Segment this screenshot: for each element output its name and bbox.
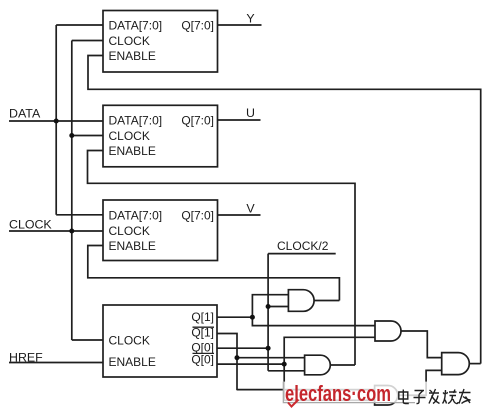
svg-text:CLOCK: CLOCK	[109, 129, 150, 143]
svg-text:V: V	[246, 202, 255, 216]
wire Q~[0] to G2 lower input	[284, 337, 375, 364]
svg-text:ENABLE: ENABLE	[109, 239, 156, 253]
wire CLOCK from terminal	[9, 230, 103, 232]
wire Q~[0] output	[217, 363, 284, 365]
svg-text:U: U	[246, 106, 255, 120]
and-gate G5	[375, 386, 398, 406]
watermark chinese 发	[429, 389, 440, 404]
svg-text:CLOCK: CLOCK	[109, 224, 150, 238]
svg-text:Q[7:0]: Q[7:0]	[181, 209, 214, 223]
wire CLOCK/2 stub	[268, 253, 336, 255]
wire HREF to U4 ENABLE	[9, 362, 103, 364]
wire U3 ENABLE feedback	[88, 246, 340, 301]
wire DATA vertical bus	[55, 25, 57, 215]
register U1 (Y) box	[103, 11, 218, 73]
svg-text:ENABLE: ENABLE	[109, 49, 156, 63]
junction A Q[1]	[250, 315, 255, 320]
watermark box border	[283, 382, 415, 403]
svg-text:CLOCK/2: CLOCK/2	[277, 239, 329, 253]
register U2 (U) box	[103, 105, 218, 167]
wire V output	[218, 214, 261, 216]
wire Q[0] to G1 lower input	[268, 306, 288, 308]
wire Q[0] vertical	[267, 254, 269, 371]
and-gate G3	[305, 355, 331, 375]
wire Y output	[218, 24, 262, 26]
svg-text:CLOCK: CLOCK	[109, 34, 150, 48]
wire U2 ENABLE feedback	[88, 151, 356, 366]
wire Q[1] to G1 upper input	[252, 295, 288, 318]
watermark chinese 子	[414, 391, 426, 404]
wire G4 output to U1 enable riser	[469, 363, 480, 365]
wire Q[0] output	[217, 347, 268, 349]
junction CLOCK node at U3	[69, 229, 74, 234]
wire CLOCK vertical bus	[71, 41, 73, 341]
wire Q[1] output	[217, 316, 252, 318]
wire Q[0] to G3 lower input	[268, 370, 305, 372]
svg-text:CLOCK: CLOCK	[109, 333, 150, 347]
wire U3 DATA input	[56, 214, 103, 216]
svg-text:HREF: HREF	[9, 351, 43, 365]
wire G3 output to U2 enable riser	[330, 364, 355, 366]
wire U2 CLOCK input	[72, 135, 103, 137]
wire Q~[1] output	[217, 334, 237, 391]
junction CLOCK node at U2	[69, 133, 74, 138]
watermark wash box	[283, 382, 458, 403]
svg-text:Y: Y	[246, 11, 254, 25]
and-gate G2	[375, 321, 401, 341]
svg-text:DATA[7:0]: DATA[7:0]	[109, 114, 163, 128]
wire DATA from terminal	[9, 120, 103, 122]
svg-text:DATA[7:0]: DATA[7:0]	[109, 19, 163, 33]
register U3 (V) box	[103, 200, 218, 261]
svg-text:elecfans·com: elecfans·com	[285, 381, 391, 406]
wire Q~[0] to G5 lower input	[284, 364, 374, 400]
and-gate G1 clock/2	[288, 290, 314, 312]
junction B Q~[1]	[235, 355, 240, 360]
junction C Q[0]	[266, 346, 271, 351]
svg-text:Q[7:0]: Q[7:0]	[181, 114, 214, 128]
wire G2 output to G4 upper input	[401, 331, 442, 358]
svg-text:CLOCK: CLOCK	[9, 217, 52, 231]
counter U4 box	[103, 305, 217, 377]
wire Q[1] to G2 upper input	[252, 317, 375, 325]
wire Q~[1] to G5 upper input	[237, 389, 375, 391]
junction D Q~[0]	[282, 362, 287, 367]
svg-text:ENABLE: ENABLE	[109, 355, 156, 369]
overline Q~[1]	[193, 326, 215, 328]
svg-text:Q[7:0]: Q[7:0]	[181, 19, 214, 33]
wire U1 CLOCK input	[72, 40, 103, 42]
wire U1 DATA input	[56, 24, 103, 26]
overline Q~[0]	[193, 352, 215, 354]
watermark logo tick	[288, 400, 299, 407]
wire G1 output to U3 enable riser	[314, 300, 339, 302]
wire U output	[218, 119, 261, 121]
junction b Q[0] at G1	[266, 304, 271, 309]
wire G5 output to G4 lower input	[398, 370, 442, 395]
watermark chinese 烧	[443, 390, 459, 404]
wire U4 CLOCK input	[72, 339, 103, 341]
svg-text:DATA: DATA	[9, 106, 41, 120]
wire Q~[1] to G3 upper input	[237, 357, 305, 359]
watermark chinese 友	[459, 389, 471, 404]
wire U1 ENABLE feedback	[88, 56, 481, 364]
svg-text:Q[1]: Q[1]	[191, 310, 214, 324]
watermark chinese 电	[399, 390, 409, 404]
svg-text:ENABLE: ENABLE	[109, 144, 156, 158]
svg-text:Q[0]: Q[0]	[191, 352, 214, 366]
svg-text:DATA[7:0]: DATA[7:0]	[109, 209, 163, 223]
and-gate G4	[442, 353, 470, 375]
junction DATA node	[54, 119, 59, 124]
